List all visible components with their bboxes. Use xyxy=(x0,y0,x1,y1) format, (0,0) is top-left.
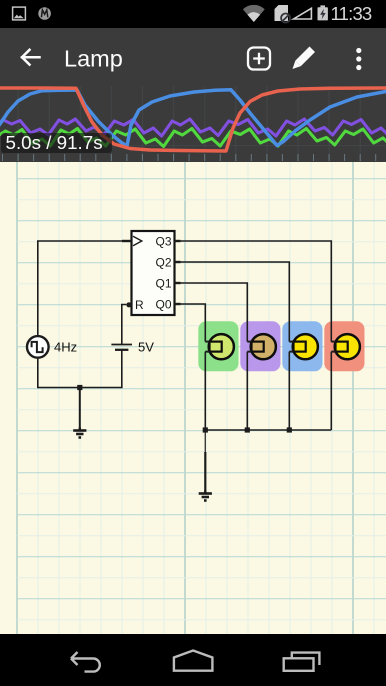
svg-text:Q3: Q3 xyxy=(155,234,171,248)
svg-text:Q2: Q2 xyxy=(155,255,171,269)
svg-text:Lamp: Lamp xyxy=(64,46,123,72)
svg-text:Q1: Q1 xyxy=(155,276,171,290)
svg-text:Q0: Q0 xyxy=(155,297,171,311)
svg-text:4Hz: 4Hz xyxy=(54,339,77,354)
svg-text:R: R xyxy=(135,298,144,312)
svg-text:5V: 5V xyxy=(138,339,154,354)
